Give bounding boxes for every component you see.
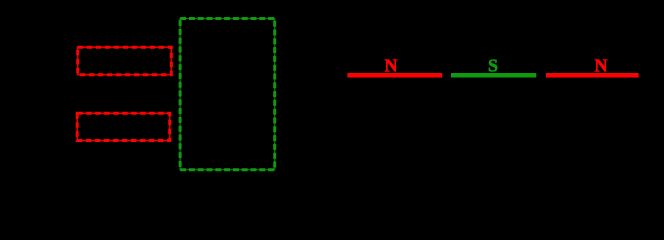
green dashed rectangle (tall box) bbox=[180, 19, 275, 170]
red dashed rectangle 2 (lower small box) bbox=[77, 113, 170, 140]
svg-text:N: N bbox=[385, 56, 398, 76]
red pole segment 2 (right N segment) bbox=[546, 73, 639, 78]
svg-text:N: N bbox=[595, 56, 608, 76]
svg-text:S: S bbox=[488, 56, 498, 76]
green pole segment (middle S segment) bbox=[451, 73, 536, 78]
red dashed rectangle 1 (upper small box) bbox=[78, 47, 172, 74]
red pole segment 1 (left N segment) bbox=[347, 73, 442, 78]
